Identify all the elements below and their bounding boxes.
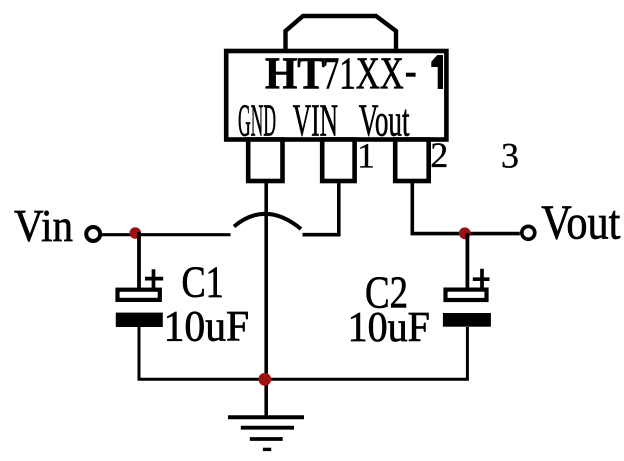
ground bar 1 bbox=[228, 415, 304, 419]
pin 1 lead rectangle (GND) bbox=[248, 140, 282, 182]
capacitor C2 bottom plate bbox=[443, 313, 491, 327]
node dot on Vout rail bbox=[459, 227, 471, 239]
IC U1 body bbox=[226, 51, 446, 140]
wire C1 top bbox=[137, 232, 141, 288]
wire Vin terminal to hop bbox=[102, 233, 231, 236]
capacitor C1 bottom plate bbox=[116, 313, 163, 327]
ground bar 2 bbox=[241, 426, 294, 430]
wire hop right segment to VIN pin bbox=[303, 181, 339, 235]
ground bar 3 bbox=[250, 437, 283, 441]
terminal circle Vout bbox=[522, 226, 535, 239]
svg-text:2: 2 bbox=[430, 135, 448, 175]
node dot ground junction bbox=[258, 373, 271, 386]
wire Vout pin down and right bbox=[412, 181, 520, 234]
capacitor C1 plus sign bbox=[145, 269, 163, 288]
svg-text:10uF: 10uF bbox=[164, 303, 250, 350]
terminal circle Vin bbox=[86, 227, 100, 241]
wire hop arc over GND wire bbox=[234, 214, 301, 229]
IC U1 package tab bbox=[286, 16, 397, 51]
capacitor C2 top plate bbox=[446, 290, 487, 300]
pin 3 lead rectangle (Vout) bbox=[395, 140, 429, 182]
svg-text:HT: HT bbox=[265, 48, 325, 98]
svg-text:C1: C1 bbox=[182, 258, 224, 307]
pin 2 lead rectangle (VIN) bbox=[322, 140, 354, 182]
svg-text:3: 3 bbox=[501, 136, 519, 176]
wire C1 bottom bbox=[139, 327, 266, 379]
wire GND pin vertical bbox=[264, 181, 268, 416]
wire C2 top bbox=[465, 233, 469, 288]
label dash of HT71XX-1 bbox=[406, 73, 416, 77]
svg-text:1: 1 bbox=[357, 136, 375, 176]
svg-text:Vin: Vin bbox=[14, 200, 73, 251]
wire C2 bottom bbox=[266, 327, 467, 379]
svg-text:Vout: Vout bbox=[541, 195, 620, 250]
svg-text:10uF: 10uF bbox=[348, 305, 430, 351]
svg-text:71XX: 71XX bbox=[323, 48, 404, 98]
capacitor C1 top plate bbox=[118, 290, 160, 300]
capacitor C2 plus sign bbox=[473, 269, 490, 288]
label 1 (bold sans part of HT71XX-1) bbox=[431, 55, 443, 89]
node dot on Vin rail bbox=[130, 227, 142, 239]
ground bar 4 bbox=[263, 448, 271, 451]
